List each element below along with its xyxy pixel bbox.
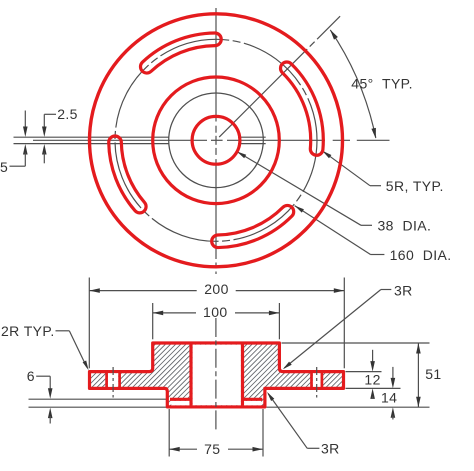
svg-text:38 DIA.: 38 DIA.: [378, 218, 432, 234]
node: bolt circle 160 DIA (dash-dot): [115, 39, 317, 241]
svg-text:6: 6: [27, 368, 35, 384]
wire: keyway slot edge lines right: [238, 136, 266, 138]
wire: extension line counterbore right 75: [262, 409, 264, 457]
dimension 45 deg TYP: [330, 30, 376, 138]
dimension 2.5: [43, 114, 45, 128]
node: arc slot top: [140, 33, 221, 73]
leader 160 DIA: [295, 206, 371, 255]
node: arc slot right: [281, 62, 324, 155]
wire: extension line plate bottom right: [346, 387, 401, 389]
svg-text:45° TYP.: 45° TYP.: [351, 75, 413, 91]
wire: front view vertical centerline: [215, 318, 217, 431]
svg-text:2R TYP.: 2R TYP.: [1, 323, 55, 339]
svg-text:3R: 3R: [321, 441, 340, 457]
wire: extension line counterbore left 75: [168, 409, 170, 457]
wire: extension lines counterbore floor / bottom left: [29, 398, 167, 400]
svg-text:2.5: 2.5: [57, 106, 78, 122]
dimension 51: [417, 343, 419, 407]
dimension 14: [392, 367, 394, 379]
svg-text:12: 12: [364, 371, 380, 387]
svg-text:100: 100: [203, 304, 228, 320]
wire: extension line plate top right: [346, 371, 382, 373]
wire: 45-degree reference ray: [219, 49, 307, 137]
wire: top view horizontal centerline: [33, 139, 207, 141]
wire: extension line hub top right: [282, 342, 430, 344]
dimension 12: [372, 350, 374, 363]
node: center hole circle 38 dia: [192, 116, 240, 164]
node: arc slot bottom: [212, 205, 294, 247]
node: flange outer circle 200 dia: [90, 14, 343, 267]
wire: slot centerline left: [112, 367, 114, 398]
node: slot cut left (white): [108, 373, 118, 387]
wire: extension line left 200: [88, 278, 90, 369]
dimension 5: [24, 111, 26, 129]
transistor-like section body (hatched flange cross-section): [90, 343, 344, 407]
svg-text:14: 14: [381, 390, 397, 406]
svg-text:160 DIA.: 160 DIA.: [390, 247, 452, 263]
wire: extension line bottom face right: [267, 406, 430, 408]
wire: extension line right 100: [278, 303, 280, 339]
svg-text:200: 200: [204, 281, 229, 297]
wire: extension line left 100: [152, 303, 154, 339]
dimension 100: [153, 312, 196, 314]
node: slot cut right (white): [313, 373, 321, 387]
leader 38 DIA: [237, 152, 361, 226]
svg-text:5R, TYP.: 5R, TYP.: [386, 178, 444, 194]
wire: slot centerline right: [316, 367, 318, 398]
leader 5R TYP: [322, 151, 370, 186]
dimension 75: [169, 448, 197, 450]
node: center hole section (white): [193, 345, 241, 406]
node: arc slot left: [109, 136, 146, 213]
node: hub circle 100 dia: [153, 77, 280, 204]
wire: extension line right 200: [343, 278, 345, 369]
svg-text:51: 51: [425, 366, 441, 382]
node: counterbore recess (white): [171, 401, 189, 405]
wire: keyway slot edge lines left (5 wide): [14, 136, 169, 138]
svg-text:75: 75: [204, 441, 220, 457]
wire: top view vertical centerline: [215, 8, 217, 122]
svg-text:5: 5: [0, 159, 8, 175]
svg-text:3R: 3R: [394, 283, 413, 299]
node: circle 75 dia inner: [169, 93, 264, 188]
dimension 200: [89, 290, 196, 292]
